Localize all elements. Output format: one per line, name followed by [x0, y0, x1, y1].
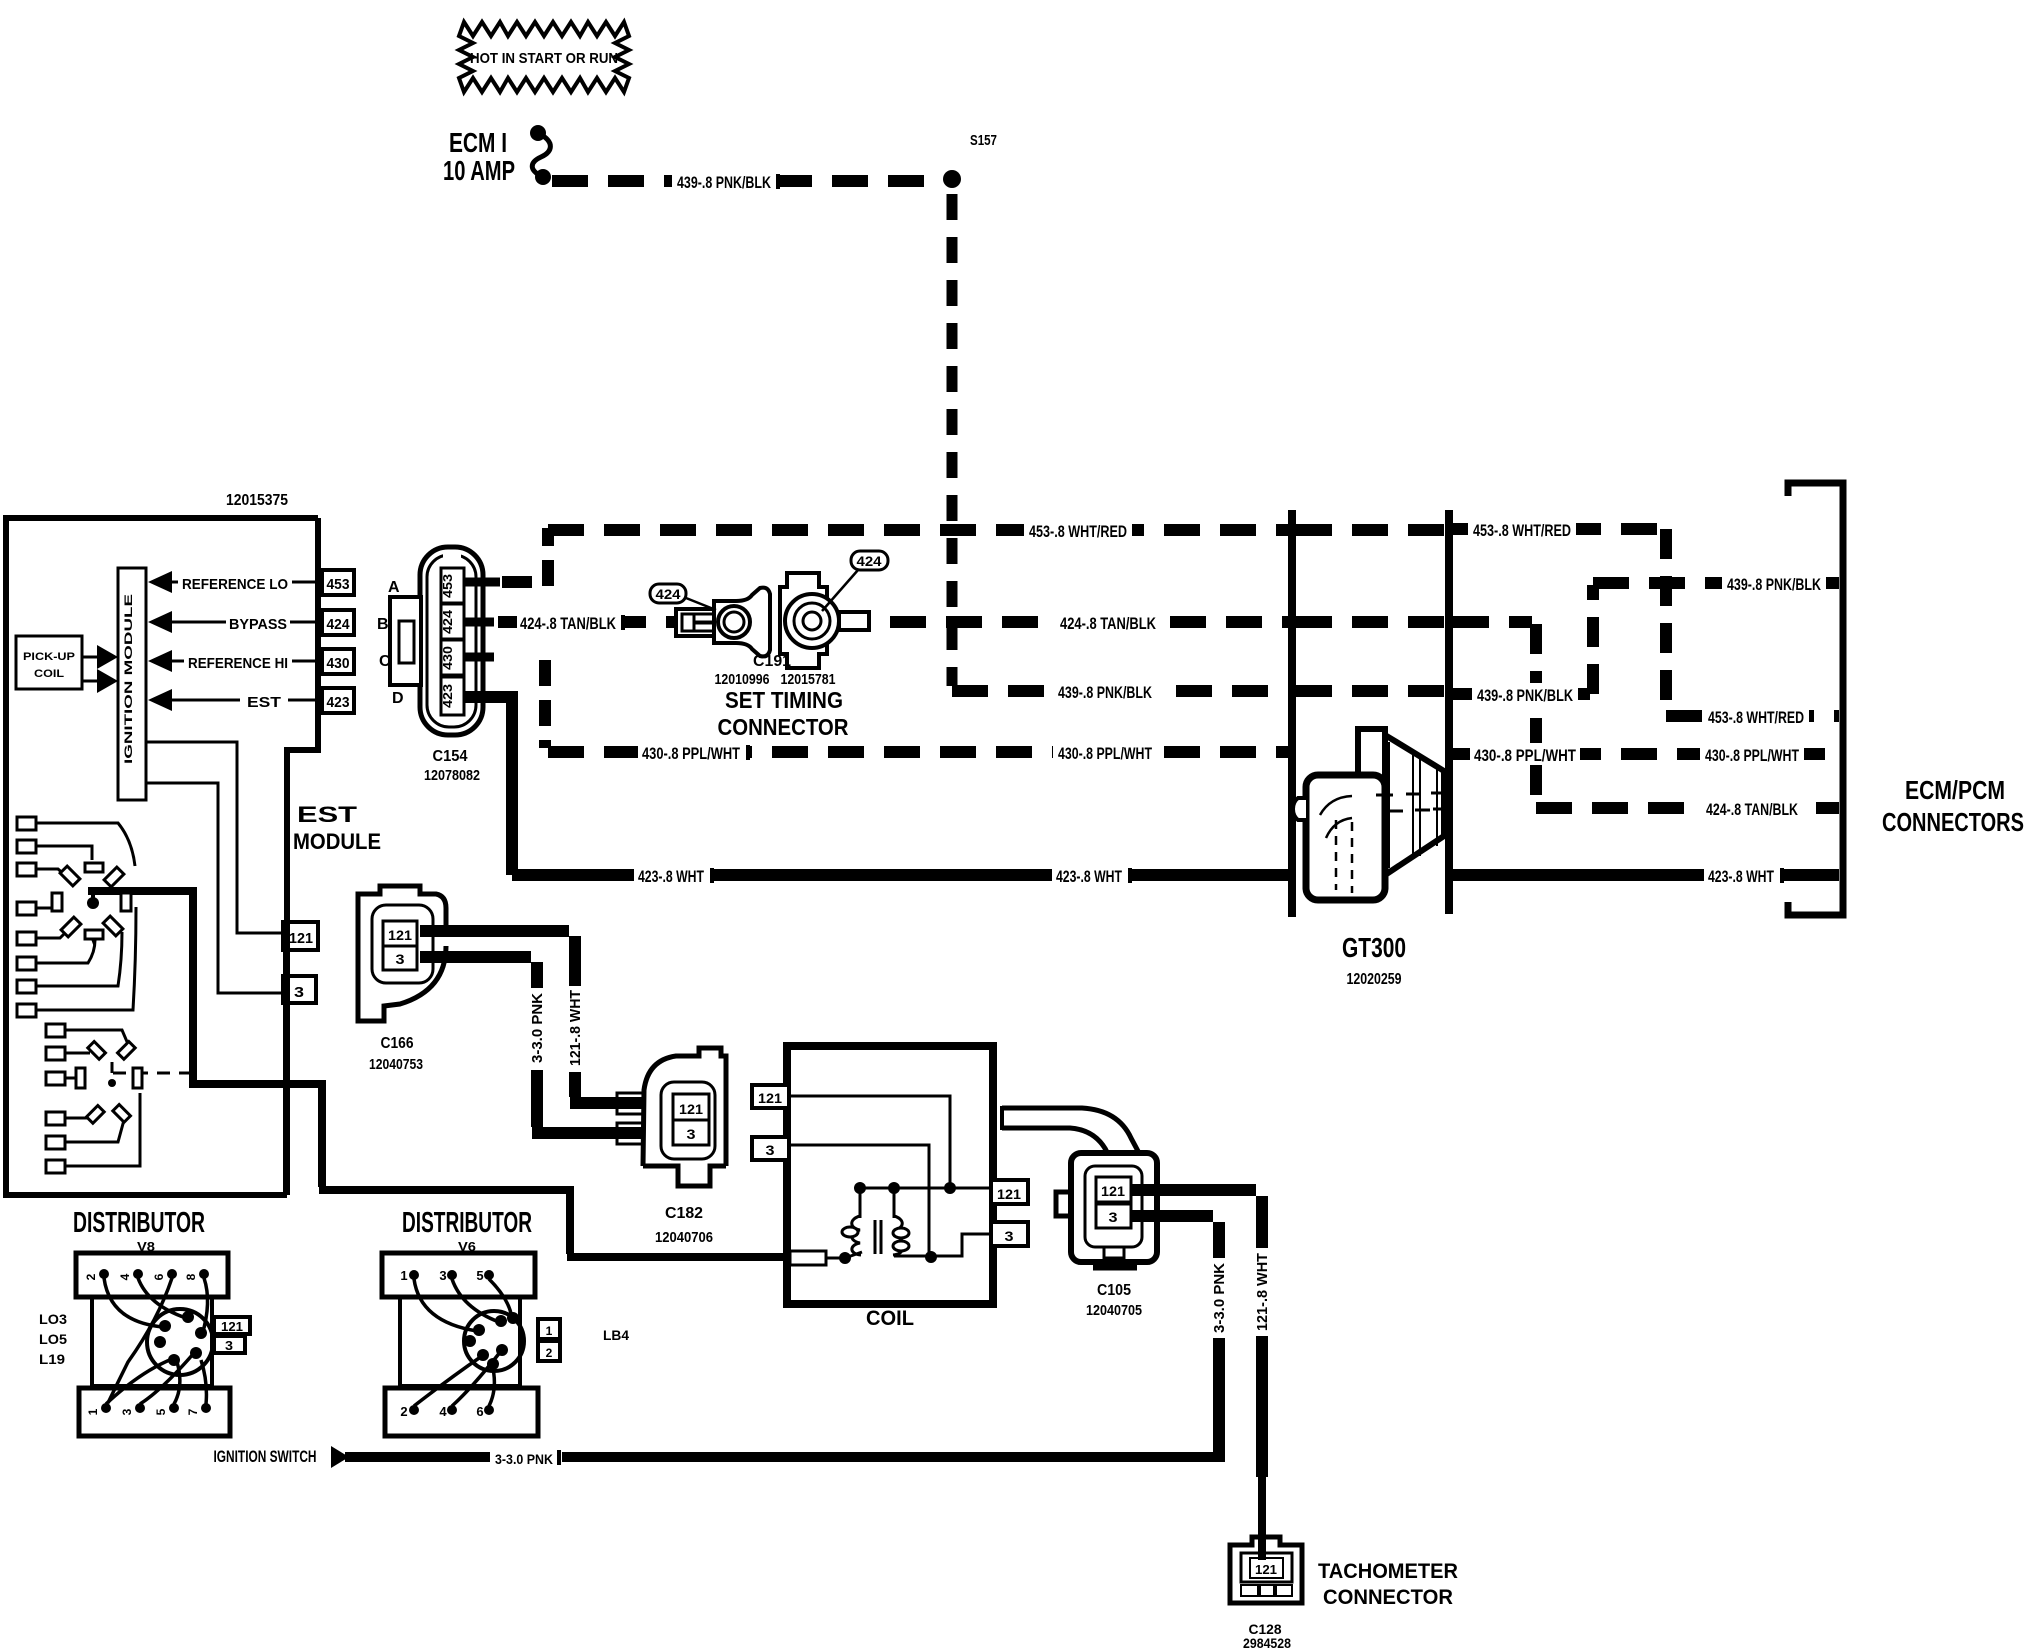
svg-text:ECM I: ECM I	[449, 127, 507, 158]
svg-text:C166: C166	[381, 1035, 414, 1052]
svg-text:453: 453	[327, 576, 350, 593]
svg-text:C182: C182	[665, 1205, 703, 1222]
svg-text:430: 430	[327, 655, 350, 672]
svg-text:2: 2	[400, 1404, 407, 1419]
wire 453 (right section)	[1453, 518, 1839, 727]
splice S157	[943, 132, 997, 188]
svg-text:DISTRIBUTOR: DISTRIBUTOR	[73, 1207, 205, 1239]
wire 439 (right section)	[1453, 572, 1839, 694]
svg-text:3: 3	[396, 951, 405, 967]
svg-text:453-.8 WHT/RED: 453-.8 WHT/RED	[1029, 522, 1127, 541]
V8 terminal 3 box	[214, 1336, 245, 1353]
V8 cap wires	[104, 1278, 208, 1404]
svg-text:430-.8 PPL/WHT: 430-.8 PPL/WHT	[642, 744, 740, 763]
svg-text:430-.8 PPL/WHT: 430-.8 PPL/WHT	[1705, 746, 1799, 765]
svg-text:3: 3	[1005, 1228, 1014, 1244]
svg-text:121: 121	[997, 1186, 1021, 1202]
svg-text:121: 121	[1255, 1562, 1277, 1577]
svg-text:1: 1	[400, 1268, 407, 1283]
coil terminal 121 (left)	[752, 1085, 789, 1108]
wire 453 row (left section)	[548, 524, 1288, 536]
wire 430 row (left section)	[548, 746, 1288, 758]
svg-text:A: A	[388, 579, 400, 596]
svg-text:3-3.0 PNK: 3-3.0 PNK	[1211, 1263, 1228, 1333]
svg-text:3: 3	[439, 1268, 446, 1283]
bulkhead line (left)	[1288, 510, 1296, 917]
wire 3-3.0 PNK from C105	[1131, 1216, 1219, 1258]
pin B stub	[464, 618, 494, 627]
wire 430 jog at C154	[539, 660, 551, 748]
distributor V6 body	[382, 1253, 538, 1436]
svg-text:10 AMP: 10 AMP	[443, 155, 515, 186]
svg-text:6: 6	[476, 1404, 483, 1419]
label 424-.8 TAN/BLK (mid)	[1054, 611, 1162, 633]
tachometer connector C128	[1230, 1537, 1302, 1603]
svg-text:453: 453	[440, 574, 455, 598]
coil terminal 121 (right)	[991, 1180, 1028, 1204]
svg-text:121-.8 WHT: 121-.8 WHT	[1254, 1253, 1271, 1331]
pick-up coil	[16, 636, 82, 689]
V8 terminal 121 box	[214, 1317, 250, 1334]
connector C105	[1002, 1106, 1157, 1266]
wire 423 row (left section)	[512, 869, 1288, 881]
svg-text:DISTRIBUTOR: DISTRIBUTOR	[402, 1207, 532, 1239]
svg-text:SET TIMING: SET TIMING	[725, 687, 843, 713]
svg-text:121: 121	[388, 927, 412, 943]
wire 439 row between bulkheads	[1296, 685, 1445, 697]
svg-text:439-.8 PNK/BLK: 439-.8 PNK/BLK	[1727, 575, 1822, 594]
connector GT300	[1293, 729, 1447, 900]
svg-text:424: 424	[656, 586, 681, 602]
coil terminal 3 (right)	[991, 1222, 1028, 1246]
label 423-.8 WHT (mid)	[1052, 864, 1128, 886]
svg-text:4: 4	[439, 1404, 447, 1419]
svg-text:8: 8	[184, 1273, 198, 1280]
svg-text:3: 3	[225, 1338, 233, 1353]
hot in start or run flag	[459, 22, 629, 92]
V8 cap pin labels bottom	[86, 1408, 200, 1415]
wire 453 jog at C154	[502, 528, 548, 586]
svg-text:S157: S157	[970, 132, 997, 149]
svg-text:6: 6	[152, 1273, 166, 1280]
V6 cap pin labels bottom	[400, 1404, 483, 1419]
wire rotor pickup to coil (thick)	[87, 891, 790, 1257]
label 423-.8 WHT (left)	[634, 864, 710, 886]
svg-text:439-.8 PNK/BLK: 439-.8 PNK/BLK	[1058, 683, 1153, 702]
svg-text:423-.8 WHT: 423-.8 WHT	[638, 867, 704, 886]
svg-text:424-.8 TAN/BLK: 424-.8 TAN/BLK	[1060, 614, 1157, 633]
terminal 3 box	[283, 950, 316, 1193]
svg-text:CONNECTORS: CONNECTORS	[1882, 807, 2024, 837]
wire 423 (right section)	[1453, 864, 1839, 886]
fuse ECM I 10 AMP	[443, 125, 551, 186]
V6 terminal 2 box	[538, 1341, 560, 1361]
svg-text:LO3: LO3	[39, 1311, 67, 1327]
svg-text:2984528: 2984528	[1243, 1635, 1291, 1648]
svg-text:121: 121	[679, 1101, 703, 1117]
coil internal wiring	[789, 1096, 991, 1258]
svg-text:C: C	[379, 653, 391, 670]
ignition switch feed wire	[214, 1446, 1226, 1468]
svg-text:12040705: 12040705	[1086, 1302, 1142, 1319]
svg-text:B: B	[377, 616, 389, 633]
label 430-.8 PPL/WHT (at set timing)	[638, 741, 746, 763]
svg-text:121: 121	[221, 1319, 243, 1334]
svg-text:L19: L19	[39, 1351, 65, 1367]
EST module box	[6, 518, 318, 1195]
svg-text:12020259: 12020259	[1347, 971, 1402, 988]
dashed link to rotor bus	[113, 1072, 193, 1075]
svg-text:3: 3	[766, 1142, 775, 1158]
ECM/PCM connectors bracket	[1788, 483, 1843, 915]
svg-text:430: 430	[440, 646, 455, 670]
svg-text:CONNECTOR: CONNECTOR	[718, 714, 849, 740]
connector C182	[617, 1048, 726, 1186]
node BYPASS / terminal 424	[148, 610, 354, 635]
set timing connector (cap half)	[780, 573, 869, 668]
coil transformer T1	[842, 1216, 909, 1255]
svg-text:12040706: 12040706	[655, 1229, 713, 1246]
V8 cap contact dots	[154, 1311, 207, 1366]
svg-text:C191: C191	[753, 653, 791, 670]
svg-text:439-.8 PNK/BLK: 439-.8 PNK/BLK	[677, 173, 772, 192]
svg-text:3: 3	[687, 1126, 696, 1142]
svg-text:EST: EST	[297, 802, 358, 827]
svg-text:424: 424	[327, 616, 351, 633]
svg-text:IGNITION SWITCH: IGNITION SWITCH	[214, 1447, 317, 1466]
pin C stub	[464, 653, 494, 662]
svg-text:424: 424	[857, 553, 882, 569]
wire ignition module to terminal 121	[146, 742, 283, 933]
wire 439 row (left section)	[952, 685, 1288, 697]
node EST / terminal 423	[148, 688, 354, 713]
svg-text:121: 121	[1101, 1183, 1125, 1199]
svg-text:LO5: LO5	[39, 1331, 67, 1347]
V6 terminal 1 box	[538, 1319, 560, 1339]
svg-text:12015781: 12015781	[781, 671, 836, 688]
svg-text:GT300: GT300	[1342, 932, 1406, 963]
svg-text:12078082: 12078082	[424, 767, 480, 784]
svg-text:3: 3	[1109, 1209, 1118, 1225]
set timing connector C191 (plug half)	[676, 588, 770, 657]
svg-text:REFERENCE LO: REFERENCE LO	[182, 576, 288, 593]
svg-text:2: 2	[546, 1346, 553, 1360]
svg-text:PICK-UP: PICK-UP	[23, 651, 75, 663]
svg-text:121-.8 WHT: 121-.8 WHT	[567, 990, 584, 1066]
wire 424 row between bulkheads	[1296, 616, 1445, 628]
bulkhead line (right)	[1445, 510, 1453, 914]
pick-up coil arrows into ignition module	[82, 645, 118, 693]
svg-text:121: 121	[758, 1090, 782, 1106]
svg-text:TACHOMETER: TACHOMETER	[1318, 1560, 1458, 1583]
svg-text:2: 2	[84, 1273, 98, 1280]
svg-text:423: 423	[440, 684, 455, 708]
wire 453 row between bulkheads	[1296, 524, 1445, 536]
wire 424 (right section)	[1453, 622, 1839, 819]
wire 430 stub at left bulkhead	[1280, 746, 1296, 758]
svg-text:423-.8 WHT: 423-.8 WHT	[1056, 867, 1122, 886]
wire 3-3.0 PNK C166 to C182	[420, 957, 537, 988]
svg-text:453-.8 WHT/RED: 453-.8 WHT/RED	[1708, 708, 1804, 727]
label 439-.8 PNK/BLK (mid)	[1053, 680, 1159, 702]
node REFERENCE HI / terminal 430	[148, 649, 354, 674]
svg-text:CONNECTOR: CONNECTOR	[1323, 1586, 1453, 1609]
callout 424 (left)	[650, 584, 716, 610]
wire 439-.8 PNK/BLK fuse to S157	[552, 170, 944, 192]
svg-text:121: 121	[289, 930, 313, 947]
svg-text:439-.8 PNK/BLK: 439-.8 PNK/BLK	[1477, 686, 1574, 705]
ignition module U1	[118, 568, 146, 800]
svg-text:C154: C154	[433, 748, 468, 765]
label 439-.8 PNK/BLK (right-left)	[1472, 683, 1578, 705]
callout 424 (right)	[822, 551, 888, 611]
svg-text:HOT IN START OR RUN: HOT IN START OR RUN	[470, 50, 618, 67]
wire 121-.8 WHT from C105	[1131, 1190, 1262, 1248]
distributor V8 body	[76, 1253, 230, 1436]
svg-text:424-.8 TAN/BLK: 424-.8 TAN/BLK	[520, 614, 617, 633]
distributor contacts drawing (upper group)	[17, 817, 136, 1017]
svg-text:423: 423	[327, 694, 350, 711]
svg-text:REFERENCE HI: REFERENCE HI	[188, 655, 288, 672]
svg-text:7: 7	[186, 1408, 200, 1415]
svg-text:D: D	[392, 690, 404, 707]
svg-text:430-.8 PPL/WHT: 430-.8 PPL/WHT	[1474, 746, 1576, 765]
coil terminal 3 (left)	[752, 1137, 789, 1160]
svg-text:12040753: 12040753	[369, 1056, 423, 1073]
label 424-.8 TAN/BLK (at C154)	[517, 611, 621, 633]
svg-text:424: 424	[440, 609, 455, 634]
wire 430 (right section)	[1453, 743, 1839, 765]
svg-text:1: 1	[546, 1324, 553, 1338]
wire 121-.8 WHT C166 to C182	[420, 931, 575, 986]
svg-text:3: 3	[120, 1408, 134, 1415]
terminal 121 box	[283, 922, 318, 950]
coil box	[787, 1046, 993, 1304]
svg-text:LB4: LB4	[603, 1327, 629, 1343]
pin A stub	[464, 578, 500, 587]
svg-text:COIL: COIL	[866, 1307, 914, 1330]
coil junction dots	[839, 1252, 851, 1264]
svg-text:COIL: COIL	[34, 668, 64, 680]
svg-text:3-3.0 PNK: 3-3.0 PNK	[529, 993, 546, 1063]
connector C154	[390, 547, 483, 735]
connector C166	[358, 886, 446, 1021]
svg-text:5: 5	[476, 1268, 483, 1283]
wire ignition module to terminal 3	[146, 783, 283, 993]
svg-text:ECM/PCM: ECM/PCM	[1905, 775, 2005, 805]
V8 cap pin labels top	[84, 1273, 198, 1280]
distributor contacts drawing (lower group)	[46, 1024, 142, 1173]
svg-text:1: 1	[86, 1408, 100, 1415]
svg-text:453-.8 WHT/RED: 453-.8 WHT/RED	[1473, 521, 1571, 540]
wire 439 vertical from S157 to 439 row	[947, 194, 958, 686]
coil HT terminal stub	[790, 1251, 826, 1265]
svg-text:430-.8 PPL/WHT: 430-.8 PPL/WHT	[1058, 744, 1152, 763]
svg-text:3-3.0 PNK: 3-3.0 PNK	[495, 1451, 553, 1467]
label 453-.8 WHT/RED (left section)	[1024, 519, 1132, 541]
node REFERENCE LO / terminal 453	[148, 570, 354, 595]
svg-text:EST: EST	[247, 694, 281, 711]
svg-text:12015375: 12015375	[226, 492, 288, 509]
svg-text:MODULE: MODULE	[293, 829, 381, 854]
svg-text:423-.8 WHT: 423-.8 WHT	[1708, 867, 1774, 886]
wire 424 row (left section)	[498, 616, 1288, 628]
svg-text:BYPASS: BYPASS	[229, 616, 287, 633]
label 430-.8 PPL/WHT (mid)	[1053, 741, 1159, 763]
V6 cap pin labels top	[400, 1268, 483, 1283]
V6 cap contact dots	[464, 1312, 519, 1370]
svg-text:424-.8 TAN/BLK: 424-.8 TAN/BLK	[1706, 800, 1799, 819]
svg-text:3: 3	[294, 984, 304, 1001]
svg-text:C105: C105	[1097, 1282, 1131, 1299]
svg-text:IGNITION MODULE: IGNITION MODULE	[123, 594, 135, 764]
svg-text:5: 5	[154, 1408, 168, 1415]
svg-text:4: 4	[118, 1273, 132, 1280]
svg-text:12010996: 12010996	[715, 671, 770, 688]
pin D stub / wire 423	[464, 697, 512, 875]
V6 cap wires	[414, 1279, 512, 1406]
